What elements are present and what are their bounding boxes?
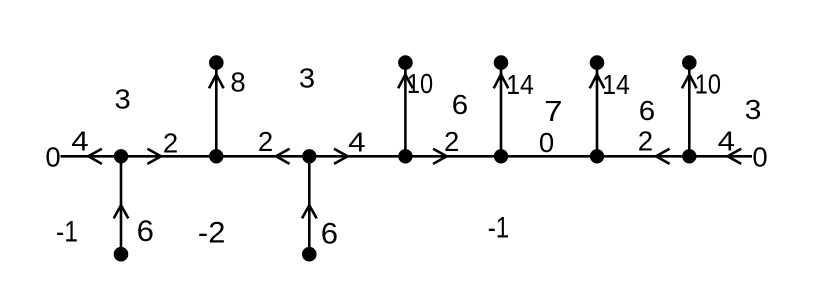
node A: [114, 149, 128, 163]
node bottom A: [114, 247, 129, 262]
wire vertical up D: [404, 63, 407, 157]
svg-text:6: 6: [639, 95, 655, 126]
arrowhead up G: [682, 75, 697, 89]
svg-text:14: 14: [602, 69, 630, 100]
node bottom C: [302, 247, 317, 262]
arrowhead up bottom A: [114, 205, 129, 218]
node top B: [209, 55, 224, 70]
arrowhead right edge2: [147, 149, 161, 164]
wire vertical down C: [308, 156, 311, 254]
svg-text:3: 3: [115, 83, 131, 114]
node F: [590, 149, 604, 163]
wire vertical up G: [688, 63, 691, 157]
wire vertical up B: [215, 63, 218, 157]
arrowhead left edge3: [276, 149, 290, 164]
svg-text:-1: -1: [488, 212, 509, 245]
arrowhead up B: [209, 75, 224, 89]
node top D: [398, 55, 413, 70]
svg-text:14: 14: [506, 69, 534, 100]
wire vertical up E: [500, 63, 503, 157]
arrowhead up D: [398, 75, 413, 89]
wire vertical up F: [596, 63, 599, 157]
node top F: [590, 55, 605, 70]
svg-text:0: 0: [45, 141, 60, 172]
node D: [398, 149, 412, 163]
node E: [494, 149, 508, 163]
node B: [209, 149, 223, 163]
svg-text:10: 10: [407, 68, 433, 99]
arrowhead right edge5: [433, 149, 447, 164]
arrowhead left edge7: [656, 149, 670, 164]
svg-text:10: 10: [695, 69, 721, 100]
svg-text:4: 4: [718, 125, 735, 156]
svg-text:0: 0: [752, 142, 767, 173]
arrowhead up bottom C: [302, 205, 317, 218]
svg-text:3: 3: [745, 94, 762, 125]
arrowhead up F: [590, 75, 605, 89]
svg-text:2: 2: [258, 126, 273, 157]
node top E: [494, 55, 509, 70]
wire backbone: [61, 155, 753, 158]
svg-text:2: 2: [638, 125, 653, 156]
arrowhead up E: [494, 75, 509, 89]
arrowhead left edge1: [88, 149, 102, 164]
svg-text:-2: -2: [198, 216, 226, 249]
svg-text:2: 2: [444, 126, 459, 157]
svg-text:7: 7: [544, 96, 562, 128]
svg-text:-1: -1: [56, 216, 78, 249]
node top G: [682, 55, 697, 70]
arrowhead left edge8: [728, 149, 742, 164]
svg-text:6: 6: [452, 89, 468, 120]
svg-text:6: 6: [321, 217, 338, 250]
svg-text:0: 0: [539, 127, 554, 158]
svg-text:6: 6: [137, 215, 154, 248]
svg-text:4: 4: [71, 126, 88, 157]
node G: [682, 149, 696, 163]
svg-text:2: 2: [163, 128, 178, 159]
svg-text:4: 4: [348, 127, 365, 158]
wire vertical down A: [120, 156, 123, 254]
svg-text:3: 3: [299, 63, 315, 94]
svg-text:8: 8: [230, 67, 245, 98]
arrowhead right edge4: [334, 149, 348, 164]
node C: [302, 149, 316, 163]
